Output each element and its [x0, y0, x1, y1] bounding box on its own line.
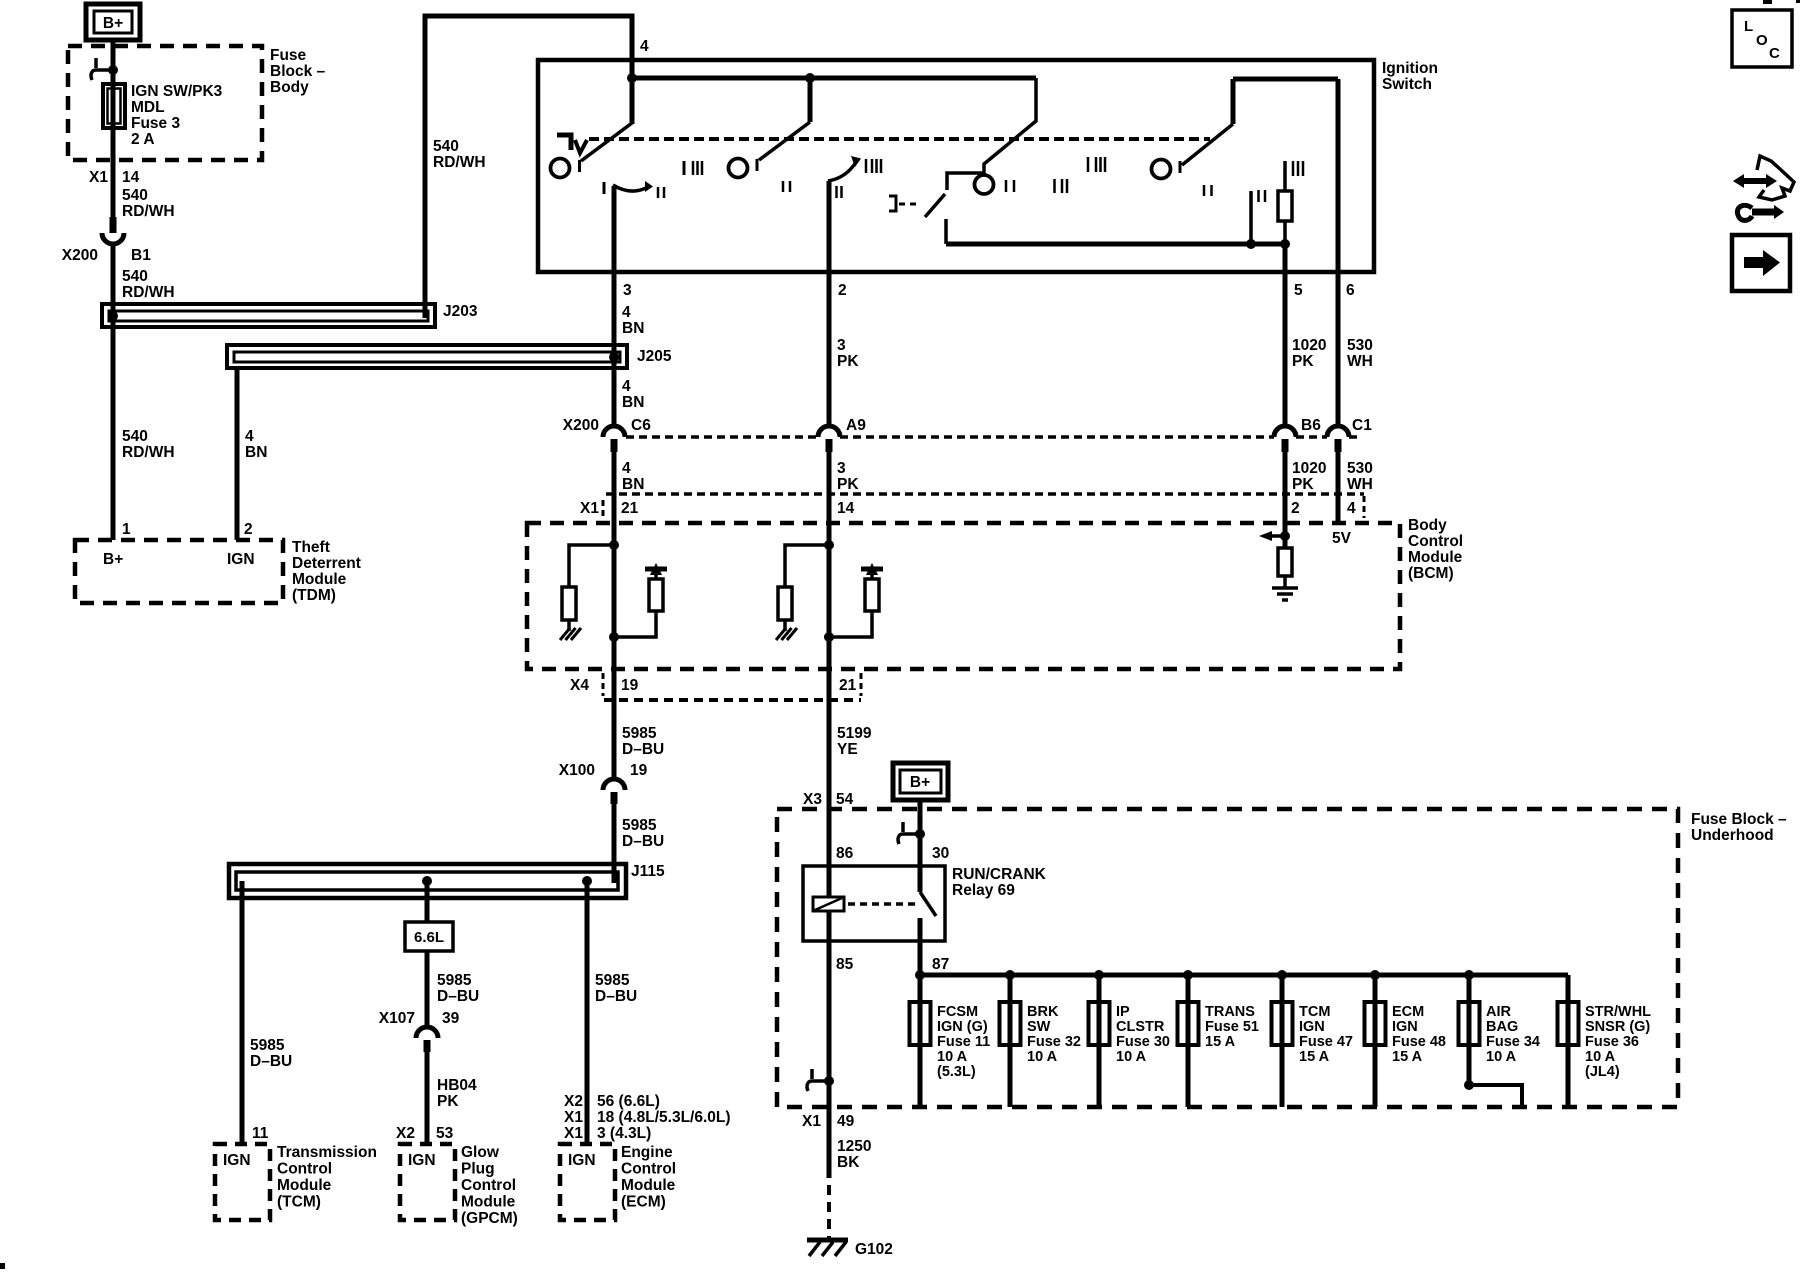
switch 4 position ticks — [1005, 180, 1008, 192]
fuse 36 STR/WHL SNSR — [1566, 975, 1571, 1107]
wire pin 49 to ground — [827, 1107, 832, 1178]
svg-text:A9: A9 — [846, 417, 866, 434]
switch 1 position ticks II (below) — [657, 187, 660, 198]
switch 2 (ON) blade — [808, 78, 813, 122]
junction dot at J203 — [108, 311, 118, 321]
svg-text:PK: PK — [1292, 476, 1314, 493]
splice pack J203 bus bar — [102, 304, 435, 327]
svg-text:Fuse 34: Fuse 34 — [1486, 1034, 1540, 1050]
connector X100 female half — [603, 779, 625, 790]
svg-text:Control: Control — [461, 1177, 516, 1194]
svg-text:Body: Body — [1408, 517, 1447, 534]
connector X100 male stub — [611, 792, 618, 804]
svg-text:5985: 5985 — [622, 725, 657, 742]
svg-text:5985: 5985 — [250, 1037, 285, 1054]
svg-text:PK: PK — [837, 353, 859, 370]
svg-text:WH: WH — [1347, 476, 1373, 493]
svg-text:1020: 1020 — [1292, 460, 1326, 477]
connector X200 C6 male stub — [611, 439, 618, 452]
svg-text:Module: Module — [621, 1177, 676, 1194]
svg-text:Module: Module — [461, 1194, 516, 1211]
svg-text:B+: B+ — [103, 15, 123, 32]
svg-text:4: 4 — [622, 304, 631, 321]
junction dot fuse 34 jog — [1464, 1080, 1474, 1090]
connector X4 tick left — [602, 673, 605, 696]
svg-text:21: 21 — [839, 677, 857, 694]
BCM pin 2 earth ground — [1283, 576, 1287, 588]
svg-text:(BCM): (BCM) — [1408, 565, 1454, 582]
BCM input 1 ground — [567, 620, 571, 631]
connector X1 tick right — [1363, 496, 1366, 518]
svg-text:Control: Control — [621, 1161, 676, 1178]
junction dot BCM pin 2 — [1280, 531, 1290, 541]
BCM input 1 pulldown resistor — [562, 587, 576, 620]
connector X200 A9 female half — [818, 426, 840, 437]
connector X1 BCM dashed line — [606, 492, 1364, 496]
BCM input 1 pullup resistor — [649, 579, 663, 611]
svg-text:Control: Control — [1408, 533, 1463, 550]
Glow Plug Control Module dashed box — [400, 1144, 455, 1220]
junction dot J115 right — [582, 876, 592, 886]
Theft Deterrent Module dashed box — [75, 540, 283, 603]
switch 4 mechanical bracket — [889, 196, 896, 211]
wire X200 B1 to J203 — [111, 245, 116, 316]
svg-text:4: 4 — [622, 460, 631, 477]
svg-text:15 A: 15 A — [1299, 1049, 1330, 1065]
svg-text:IGN: IGN — [408, 1152, 436, 1169]
svg-text:6: 6 — [1346, 282, 1355, 299]
BCM input 2 pulldown resistor — [778, 587, 792, 620]
Body Control Module dashed box — [527, 523, 1400, 669]
svg-text:X107: X107 — [379, 1010, 415, 1027]
ignition switch internal feed bus — [630, 60, 635, 78]
svg-text:53: 53 — [436, 1125, 454, 1142]
svg-text:5199: 5199 — [837, 725, 872, 742]
svg-text:D–BU: D–BU — [622, 741, 664, 758]
svg-text:2: 2 — [244, 521, 253, 538]
next page arrow box — [1732, 235, 1790, 291]
switch 4 momentary blade — [925, 194, 945, 217]
fuse 51 TRANS — [1186, 975, 1191, 1107]
svg-text:49: 49 — [837, 1113, 855, 1130]
svg-text:X1: X1 — [564, 1125, 583, 1142]
junction dot lower bus 2 — [1280, 239, 1290, 249]
splice pack J115 bus bar — [229, 864, 626, 898]
svg-text:10 A: 10 A — [1116, 1049, 1147, 1065]
svg-text:C: C — [1769, 45, 1780, 62]
svg-text:Fuse 48: Fuse 48 — [1392, 1034, 1446, 1050]
svg-text:B+: B+ — [103, 551, 123, 568]
svg-text:Ignition: Ignition — [1382, 60, 1438, 77]
svg-text:86: 86 — [836, 845, 854, 862]
junction dot bus fuse 30 — [1094, 970, 1104, 980]
svg-text:(TDM): (TDM) — [292, 587, 336, 604]
svg-text:J205: J205 — [637, 348, 672, 365]
svg-text:2: 2 — [838, 282, 847, 299]
svg-text:PK: PK — [1292, 353, 1314, 370]
connector X200 dashed line — [626, 435, 818, 439]
engine 6.6L tag box — [405, 922, 453, 951]
svg-text:39: 39 — [442, 1010, 460, 1027]
svg-text:5V: 5V — [1332, 530, 1352, 547]
wire 6.6L tag to X107 — [425, 951, 430, 1027]
Fuse Block - Body dashed box — [68, 46, 262, 160]
switch 5 contact circle — [1152, 160, 1171, 179]
svg-text:3: 3 — [837, 337, 846, 354]
svg-text:IGN: IGN — [568, 1152, 596, 1169]
junction dot bus fuse 48 — [1370, 970, 1380, 980]
BCM input 2 pulldown wire — [785, 545, 829, 587]
switch 2 contact circle — [729, 159, 748, 178]
BCM pin 2 continuation arrow — [1272, 534, 1284, 538]
svg-text:TCM: TCM — [1299, 1004, 1330, 1020]
connector X107 male stub — [424, 1040, 431, 1052]
switch 1 contact circle — [551, 159, 570, 178]
svg-text:L: L — [1744, 18, 1753, 35]
svg-text:3: 3 — [623, 282, 632, 299]
svg-text:D–BU: D–BU — [595, 988, 637, 1005]
fuse 11 FCSM IGN (G) — [918, 975, 923, 1107]
connector X4 dashed line — [604, 698, 861, 702]
svg-text:X100: X100 — [559, 762, 595, 779]
svg-text:Deterrent: Deterrent — [292, 555, 361, 572]
svg-text:Body: Body — [270, 79, 309, 96]
svg-text:2: 2 — [1291, 500, 1300, 517]
wire J115 to ECM — [585, 881, 590, 1144]
svg-text:IGN: IGN — [1299, 1019, 1325, 1035]
switch 4 (START) upper linkage — [947, 78, 1036, 190]
svg-text:D–BU: D–BU — [622, 833, 664, 850]
svg-text:FCSM: FCSM — [937, 1004, 978, 1020]
junction dot at J205 — [609, 352, 619, 362]
svg-text:IGN: IGN — [1392, 1019, 1418, 1035]
svg-text:85: 85 — [836, 956, 854, 973]
svg-text:J203: J203 — [443, 303, 478, 320]
wire J203 riser 540 RD/WH to ignition switch pin 4 — [425, 16, 632, 318]
svg-text:B1: B1 — [131, 247, 151, 264]
junction dot J115 left — [422, 876, 432, 886]
connector X200 terminal B1 male stub — [110, 217, 117, 233]
svg-text:IGN (G): IGN (G) — [937, 1019, 988, 1035]
svg-text:56 (6.6L): 56 (6.6L) — [597, 1093, 660, 1110]
battery feed B+ symbol (top left) — [86, 4, 140, 40]
svg-text:530: 530 — [1347, 337, 1373, 354]
svg-text:Fuse: Fuse — [270, 47, 307, 64]
svg-text:10 A: 10 A — [1486, 1049, 1517, 1065]
svg-text:4: 4 — [640, 38, 649, 55]
svg-text:10 A: 10 A — [937, 1049, 968, 1065]
page corner mark bottom left — [0, 1263, 5, 1269]
fuse 47 TCM IGN — [1280, 975, 1285, 1107]
svg-text:18 (4.8L/5.3L/6.0L): 18 (4.8L/5.3L/6.0L) — [597, 1109, 731, 1126]
junction dot bus 2 — [805, 73, 815, 83]
fuse F3 IGN SW/PK3 MDL Fuse 3 2A — [103, 84, 125, 128]
svg-text:54: 54 — [836, 791, 854, 808]
svg-text:Fuse 3: Fuse 3 — [131, 115, 180, 132]
fuse bus bar from relay 87 — [920, 973, 1568, 978]
junction dot bus fuse 32 — [1005, 970, 1015, 980]
switch 1 (ACC) blade — [630, 78, 635, 124]
svg-text:19: 19 — [630, 762, 648, 779]
svg-text:BRK: BRK — [1027, 1004, 1059, 1020]
svg-text:X200: X200 — [563, 417, 599, 434]
ground G102 symbol — [807, 1238, 848, 1243]
BCM input 1 pulldown wire — [569, 545, 614, 587]
svg-text:Fuse Block –: Fuse Block – — [1691, 811, 1787, 828]
Engine Control Module dashed box — [560, 1144, 615, 1220]
svg-text:19: 19 — [621, 677, 639, 694]
svg-text:540: 540 — [122, 187, 148, 204]
svg-text:540: 540 — [433, 138, 459, 155]
svg-text:5985: 5985 — [595, 972, 630, 989]
switch 1 position ticks I III — [683, 161, 686, 175]
svg-text:4: 4 — [1347, 500, 1356, 517]
wire X107 to GPCM — [425, 1052, 430, 1144]
svg-text:Engine: Engine — [621, 1144, 673, 1161]
svg-text:SW: SW — [1027, 1019, 1051, 1035]
svg-text:X1: X1 — [89, 169, 108, 186]
svg-text:BN: BN — [622, 476, 644, 493]
svg-text:B+: B+ — [910, 774, 930, 791]
BCM input 1 wire — [612, 523, 617, 669]
relay switch lower contact wire — [918, 918, 923, 975]
svg-text:BN: BN — [622, 320, 644, 337]
battery feed B+ symbol (relay) — [893, 763, 948, 800]
wire BCM 19 to X100 — [612, 669, 617, 779]
svg-text:IGN SW/PK3: IGN SW/PK3 — [131, 83, 223, 100]
relay actuation dashed link — [848, 902, 916, 906]
fuse 48 ECM IGN — [1373, 975, 1378, 1107]
svg-text:X2: X2 — [396, 1125, 415, 1142]
BCM input 1 pullup bar-arrow — [645, 567, 667, 572]
BCM pin 2 internal wire — [1283, 523, 1288, 548]
svg-text:87: 87 — [932, 956, 949, 973]
svg-text:540: 540 — [122, 428, 148, 445]
switch 5 position ticks II — [1203, 185, 1206, 196]
BCM input 2 pullup resistor — [865, 579, 879, 611]
svg-text:IGN: IGN — [227, 551, 255, 568]
svg-text:5985: 5985 — [437, 972, 472, 989]
svg-text:X200: X200 — [62, 247, 98, 264]
svg-text:TRANS: TRANS — [1205, 1004, 1255, 1020]
svg-text:RUN/CRANK: RUN/CRANK — [952, 866, 1047, 883]
wire relay coil to ground pin 49 — [827, 911, 832, 1107]
BCM input 1 pullup return wire — [614, 611, 656, 637]
svg-text:X1: X1 — [802, 1113, 821, 1130]
position ticks III near resistor — [1292, 161, 1295, 176]
svg-text:O: O — [1756, 32, 1768, 49]
connector X1 tick left — [602, 500, 605, 520]
fuse 34 AIR BAG — [1467, 975, 1472, 1085]
svg-text:C6: C6 — [631, 417, 651, 434]
svg-text:BN: BN — [622, 394, 644, 411]
svg-text:IGN: IGN — [223, 1152, 251, 1169]
switch 3 rotation arc with arrow (pin 2) — [828, 162, 856, 181]
svg-text:Control: Control — [277, 1161, 332, 1178]
fuse clip terminal (coil ground) — [810, 1069, 814, 1079]
connector X200 A9 male stub — [826, 439, 833, 452]
svg-text:21: 21 — [621, 500, 639, 517]
wire A9 to BCM pin 14 — [827, 452, 832, 523]
fuse 34 output jog wire — [1469, 1043, 1522, 1107]
wire ignition switch pin 6 — [1336, 79, 1341, 272]
svg-text:15 A: 15 A — [1392, 1049, 1423, 1065]
svg-text:Fuse 30: Fuse 30 — [1116, 1034, 1170, 1050]
svg-text:C1: C1 — [1352, 417, 1372, 434]
wire J203 down to TDM pin 1 — [111, 316, 116, 540]
LOC reference box — [1732, 10, 1792, 67]
connector X107 female half — [416, 1027, 438, 1038]
wire X100 to J115 — [612, 804, 617, 883]
svg-text:HB04: HB04 — [437, 1077, 477, 1094]
svg-text:AIR: AIR — [1486, 1004, 1512, 1020]
wire B6 to BCM pin 2 — [1283, 452, 1288, 523]
svg-text:Transmission: Transmission — [277, 1144, 377, 1161]
svg-text:WH: WH — [1347, 353, 1373, 370]
switch 1 rotation arc with arrow — [603, 182, 606, 194]
svg-text:B6: B6 — [1301, 417, 1321, 434]
svg-text:X1: X1 — [580, 500, 599, 517]
svg-text:5985: 5985 — [622, 817, 657, 834]
page corner mark top right — [1763, 0, 1772, 4]
svg-text:Plug: Plug — [461, 1161, 495, 1178]
key position dashed line — [589, 137, 1210, 141]
junction dot BCM input 1 return — [609, 632, 619, 642]
svg-text:Module: Module — [1408, 549, 1463, 566]
svg-text:Fuse 11: Fuse 11 — [937, 1034, 990, 1050]
svg-text:Glow: Glow — [461, 1144, 500, 1161]
svg-text:D–BU: D–BU — [250, 1053, 292, 1070]
relay switch blade — [918, 866, 923, 892]
wire ignition switch pin 5 — [1283, 221, 1287, 244]
wire ignition switch pin 2 — [827, 181, 832, 272]
svg-text:STR/WHL: STR/WHL — [1585, 1004, 1651, 1020]
svg-text:30: 30 — [932, 845, 949, 862]
connector X200 C1 male stub — [1335, 439, 1342, 452]
svg-text:4: 4 — [622, 378, 631, 395]
wire J115 to 6.6L tag — [425, 881, 430, 922]
wire J205 to TDM pin 2 — [235, 368, 240, 540]
junction dot BCM input 2 return — [824, 632, 834, 642]
svg-text:(GPCM): (GPCM) — [461, 1210, 518, 1227]
svg-text:14: 14 — [122, 169, 140, 186]
connector X200 B6 female half — [1274, 426, 1296, 437]
svg-text:5: 5 — [1294, 282, 1303, 299]
svg-text:X2: X2 — [564, 1093, 583, 1110]
wire C6 to BCM pin 21 — [612, 452, 617, 523]
junction dot bus 1 — [627, 73, 637, 83]
svg-text:BK: BK — [837, 1154, 860, 1171]
svg-text:530: 530 — [1347, 460, 1373, 477]
switch 4 contact circle — [975, 175, 994, 194]
ignition switch box — [538, 60, 1374, 272]
ignition switch internal lower bus — [946, 242, 1285, 247]
svg-text:CLSTR: CLSTR — [1116, 1019, 1165, 1035]
switch 3 position ticks II and I III — [835, 186, 838, 198]
svg-text:10 A: 10 A — [1027, 1049, 1058, 1065]
svg-text:11: 11 — [252, 1125, 269, 1142]
svg-text:Switch: Switch — [1382, 76, 1432, 93]
connector X200 C6 female half — [603, 426, 625, 437]
splice pack J205 bus bar — [227, 345, 627, 368]
svg-text:Fuse 51: Fuse 51 — [1205, 1019, 1259, 1035]
svg-text:BAG: BAG — [1486, 1019, 1518, 1035]
connector X200 B6 male stub — [1282, 439, 1289, 452]
svg-text:Module: Module — [292, 571, 347, 588]
wire B+ to fuse 3 — [111, 40, 116, 218]
fuse 32 BRK SW — [1008, 975, 1013, 1107]
svg-text:4: 4 — [245, 428, 254, 445]
svg-text:MDL: MDL — [131, 99, 165, 116]
svg-text:ECM: ECM — [1392, 1004, 1424, 1020]
svg-text:15 A: 15 A — [1205, 1034, 1236, 1050]
key lock symbol — [557, 135, 571, 150]
svg-text:BN: BN — [245, 444, 267, 461]
svg-text:Module: Module — [277, 1177, 332, 1194]
svg-text:1020: 1020 — [1292, 337, 1326, 354]
relay coil — [813, 897, 844, 911]
wire B+ to relay 30 — [918, 800, 923, 866]
svg-text:2 A: 2 A — [131, 131, 155, 148]
svg-text:RD/WH: RD/WH — [122, 284, 175, 301]
svg-text:PK: PK — [437, 1093, 459, 1110]
svg-text:1250: 1250 — [837, 1138, 871, 1155]
junction dot bus fuse 51 — [1183, 970, 1193, 980]
svg-text:SNSR (G): SNSR (G) — [1585, 1019, 1650, 1035]
svg-text:RD/WH: RD/WH — [122, 203, 175, 220]
svg-text:Fuse 36: Fuse 36 — [1585, 1034, 1639, 1050]
svg-text:Fuse 32: Fuse 32 — [1027, 1034, 1081, 1050]
svg-text:PK: PK — [837, 476, 859, 493]
svg-text:G102: G102 — [855, 1241, 893, 1258]
BCM pin 2 resistor — [1278, 548, 1292, 576]
fuse 30 IP CLSTR — [1097, 975, 1102, 1107]
junction dot bus fuse 47 — [1277, 970, 1287, 980]
dashed wire to G102 — [827, 1185, 831, 1238]
BCM input 2 pullup return wire — [829, 611, 872, 637]
BCM input 2 wire — [827, 523, 832, 669]
RUN/CRANK relay 69 box — [803, 866, 945, 941]
svg-text:YE: YE — [837, 741, 858, 758]
svg-text:D–BU: D–BU — [437, 988, 479, 1005]
svg-text:X4: X4 — [570, 677, 589, 694]
wire ignition switch pin 3 — [612, 186, 617, 426]
svg-text:540: 540 — [122, 268, 148, 285]
wire X3 54 to relay coil — [827, 700, 832, 897]
junction dot BCM input 2 — [824, 540, 834, 550]
svg-text:Block –: Block – — [270, 63, 326, 80]
connector X4 tick right — [860, 673, 863, 696]
svg-text:X3: X3 — [803, 791, 822, 808]
connector X200 terminal B1 female cup — [102, 233, 124, 244]
svg-text:IP: IP — [1116, 1004, 1130, 1020]
svg-text:3: 3 — [837, 460, 846, 477]
Transmission Control Module dashed box — [215, 1144, 270, 1220]
svg-text:10 A: 10 A — [1585, 1049, 1616, 1065]
position ticks II near contact stub — [1257, 190, 1260, 202]
wire C1 to BCM pin 4 — [1336, 452, 1341, 523]
svg-text:X1: X1 — [564, 1109, 583, 1126]
svg-text:(5.3L): (5.3L) — [937, 1064, 976, 1080]
wire pin2 to X200 A9 — [827, 272, 832, 426]
ignition switch internal resistor — [1278, 191, 1292, 221]
junction dot bus fuse 34 — [1464, 970, 1474, 980]
svg-text:Underhood: Underhood — [1691, 827, 1774, 844]
svg-text:Fuse 47: Fuse 47 — [1299, 1034, 1353, 1050]
junction dot BCM input 1 — [609, 540, 619, 550]
switch 4 bracket dashed link — [899, 203, 921, 206]
switch 4 lower contact — [944, 219, 948, 244]
